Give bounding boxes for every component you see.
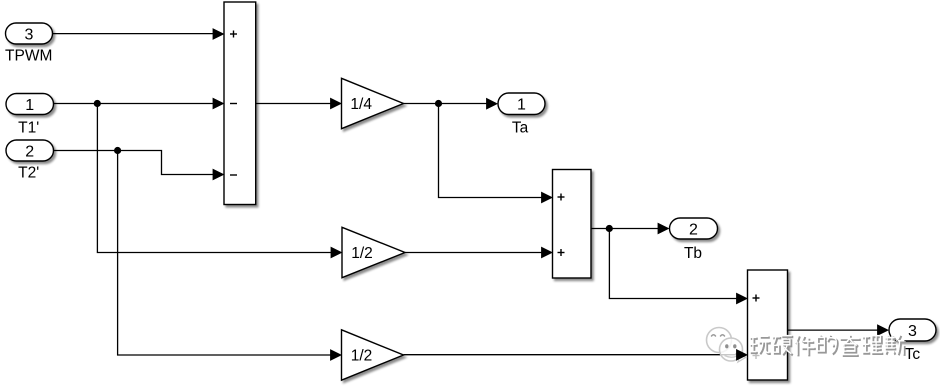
wire Sum2 output to Out2 Tb (591, 223, 670, 235)
wire branch Sum2 output to Sum3 input 1 (609, 229, 748, 305)
junction node on T2' wire (114, 147, 121, 154)
sum signs + + (753, 295, 760, 360)
inport block In1 (port 1) (6, 94, 54, 115)
svg-text:Tc: Tc (905, 346, 921, 363)
gain block Gain3 value 1/2 (342, 330, 404, 380)
gain block Gain2 value 1/2 (342, 227, 405, 277)
svg-text:TPWM: TPWM (5, 47, 52, 64)
svg-text:3: 3 (908, 323, 917, 340)
outport block Out3 (port 3) (889, 319, 936, 341)
sum signs + - - (230, 31, 237, 176)
sum block Sum3 (748, 270, 788, 380)
svg-text:1/2: 1/2 (351, 348, 373, 365)
junction node on T1' wire (94, 100, 101, 107)
svg-text:1: 1 (25, 97, 34, 114)
gain block Gain1 value 1/4 (342, 78, 404, 128)
sum block Sum2 (553, 170, 592, 279)
wire branch T2' to Gain3 (118, 151, 342, 361)
wire T1' to Sum1 input 2 (54, 98, 225, 110)
svg-text:1/2: 1/2 (351, 245, 373, 262)
svg-text:1: 1 (517, 97, 526, 114)
sum signs + + (558, 194, 565, 257)
arrowhead redrawn over watermark (Gain3 wire into Sum3) (736, 349, 748, 361)
wire Sum3 output to Out3 Tc (788, 324, 890, 336)
svg-text:2: 2 (25, 143, 34, 160)
junction node on Sum2 output wire (606, 225, 613, 232)
svg-text:1/4: 1/4 (350, 96, 372, 113)
svg-text:T2': T2' (18, 165, 39, 182)
inport block In3 (port 3) (6, 23, 53, 44)
svg-text:T1': T1' (18, 120, 39, 137)
sum block Sum1 (224, 2, 256, 205)
wire branch T1' to Gain2 (97, 104, 342, 259)
inport block In2 (port 2) (6, 140, 54, 161)
svg-text:Ta: Ta (512, 119, 529, 136)
wire branch Gain1 output to Sum2 input 1 (439, 104, 554, 204)
wire Gain1 output to Out1 Ta (404, 98, 499, 110)
wire Sum1 output to Gain1 (256, 98, 342, 110)
wire Gain2 output to Sum2 input 2 (405, 247, 553, 259)
wire Gain3 output to Sum3 input 2 (404, 354, 739, 356)
svg-text:3: 3 (25, 26, 34, 43)
watermark text (hand-drawn CJK strokes) (749, 335, 905, 361)
wire T2' to Sum1 input 3 (54, 151, 225, 181)
wire TPWM to Sum1 input 1 (53, 28, 225, 40)
svg-text:2: 2 (689, 221, 698, 238)
svg-text:Tb: Tb (684, 245, 702, 262)
outport block Out2 (port 2) (670, 218, 718, 239)
watermark logo (two doodle chat faces) (707, 328, 747, 363)
junction node on Gain1 output wire (435, 100, 442, 107)
outport block Out1 (port 1) (498, 93, 545, 115)
